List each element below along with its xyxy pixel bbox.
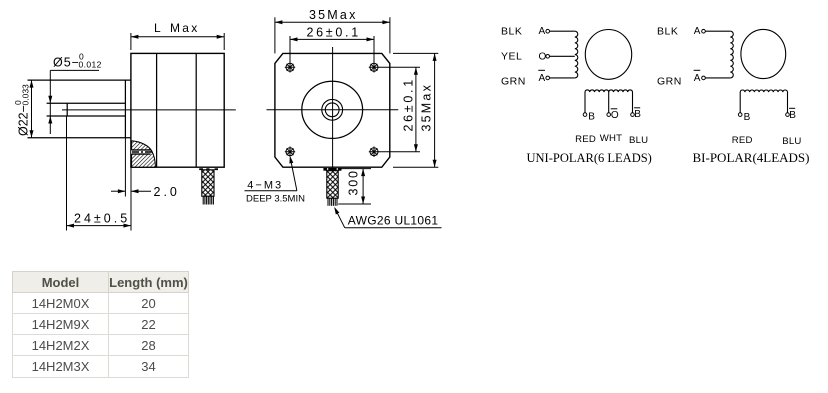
svg-text:BI-POLAR(4LEADS): BI-POLAR(4LEADS) [693, 150, 810, 165]
cable clamp side view [199, 168, 218, 170]
M3 hole in section [131, 150, 150, 154]
rotor circle 2 [741, 29, 786, 78]
dimension L Max [131, 33, 224, 50]
svg-text:UNI-POLAR(6 LEADS): UNI-POLAR(6 LEADS) [527, 151, 652, 165]
wire Abar [550, 77, 575, 79]
rotor circle [585, 30, 631, 80]
dimension d22 pilot [31, 80, 33, 138]
mounting hole bottom-right [369, 147, 379, 157]
svg-text:BLK: BLK [501, 25, 522, 37]
svg-text:BLU: BLU [629, 135, 648, 146]
dimension d5 shaft [50, 70, 99, 134]
terminal O circle [546, 55, 550, 59]
svg-text:GRN: GRN [501, 76, 526, 88]
dimension 35Max right [393, 53, 438, 167]
pilot boss bottom line [28, 137, 132, 139]
svg-text:2.0: 2.0 [154, 185, 180, 199]
wire O [550, 55, 575, 57]
wire B2 [739, 92, 741, 113]
horizontal centerline [267, 109, 399, 111]
wire Bbar [632, 92, 634, 113]
vertical centerline [332, 47, 334, 172]
wire A [550, 30, 575, 32]
svg-text:O: O [611, 110, 619, 121]
svg-text:BLU: BLU [782, 136, 801, 147]
winding A2 vertical coil [730, 31, 733, 78]
motor body side view [131, 53, 224, 167]
pilot boss top line [28, 79, 132, 81]
centerline [62, 109, 236, 111]
svg-text:26±0.1: 26±0.1 [402, 77, 416, 131]
winding B2 horizontal coil [740, 90, 787, 92]
wire A2 [705, 30, 730, 32]
wire A2bar [705, 77, 730, 79]
dimension 35Max top [275, 17, 390, 53]
svg-text:BLK: BLK [657, 25, 678, 37]
svg-text:YEL: YEL [501, 51, 522, 63]
svg-text:Ø5−: Ø5− [53, 56, 80, 70]
svg-text:B: B [634, 109, 641, 120]
terminal A2bar circle [702, 76, 706, 80]
shaft circle [325, 103, 339, 117]
svg-text:26±0.1: 26±0.1 [307, 25, 361, 39]
svg-text:300: 300 [347, 169, 361, 195]
model/length table [12, 271, 189, 378]
extension line body front [130, 167, 132, 230]
cable braid front view [327, 171, 338, 199]
shaft boss circle [322, 99, 343, 120]
winding B horizontal coil [585, 90, 633, 92]
front flange square [275, 53, 390, 167]
body section line 2 [195, 53, 197, 167]
dimension 2.0 [111, 190, 125, 192]
pilot circle front [302, 81, 363, 138]
shaft end face [66, 103, 68, 116]
svg-text:B: B [789, 110, 796, 121]
terminal Bbar circle [631, 113, 635, 117]
svg-text:WHT: WHT [600, 133, 622, 144]
terminal A2 circle [702, 29, 706, 33]
terminal B circle [583, 113, 587, 117]
svg-text:AWG26 UL1061: AWG26 UL1061 [348, 213, 439, 227]
cable braid side view [202, 170, 214, 196]
wire Obar [608, 92, 610, 113]
svg-text:4−M3: 4−M3 [247, 180, 283, 192]
wire B [584, 92, 586, 113]
svg-text:A: A [694, 73, 701, 84]
svg-text:L: L [154, 21, 161, 35]
svg-text:A: A [694, 26, 701, 37]
svg-text:35Max: 35Max [309, 8, 358, 22]
svg-text:24±0.5: 24±0.5 [74, 212, 130, 226]
flange broken-out section (hatched) [132, 141, 156, 167]
dimension 300 cable length [338, 169, 371, 204]
svg-text:A: A [539, 26, 546, 37]
cable strands front view [328, 198, 337, 206]
terminal B2bar circle [786, 113, 790, 117]
terminal B2 circle [738, 113, 742, 117]
svg-text:Ø22−: Ø22− [17, 105, 31, 136]
shaft top line [47, 102, 126, 104]
mounting hole bottom-left [285, 147, 295, 157]
shaft bottom line [47, 115, 126, 117]
cable clamp front view [323, 168, 341, 171]
svg-text:O: O [539, 52, 547, 63]
svg-text:B: B [588, 112, 595, 123]
svg-text:Max: Max [170, 21, 200, 35]
svg-text:RED: RED [732, 135, 753, 146]
winding A vertical coil [575, 31, 578, 78]
pilot boss front face [124, 80, 126, 138]
mounting hole top-left [285, 62, 295, 72]
cable strands side view [203, 196, 213, 204]
svg-text:A: A [539, 73, 546, 84]
svg-text:GRN: GRN [657, 76, 682, 88]
svg-text:RED: RED [575, 134, 596, 145]
svg-text:DEEP 3.5MIN: DEEP 3.5MIN [246, 194, 305, 205]
svg-text:B: B [744, 112, 751, 123]
mounting hole top-right [369, 62, 379, 72]
wire B2bar [787, 92, 789, 113]
terminal Abar circle [546, 76, 550, 80]
svg-text:35Max: 35Max [420, 83, 434, 132]
terminal Obar circle [607, 113, 611, 117]
svg-text:0.012: 0.012 [79, 60, 102, 70]
svg-text:0.033: 0.033 [21, 84, 31, 106]
body section line 1 [156, 53, 158, 167]
dimension 24+-0.5 [66, 116, 68, 231]
dimension 26+-0.1 top [290, 36, 374, 63]
dimension 26+-0.1 right [379, 67, 421, 151]
terminal A circle [546, 29, 550, 33]
extension line boss face [124, 138, 126, 197]
